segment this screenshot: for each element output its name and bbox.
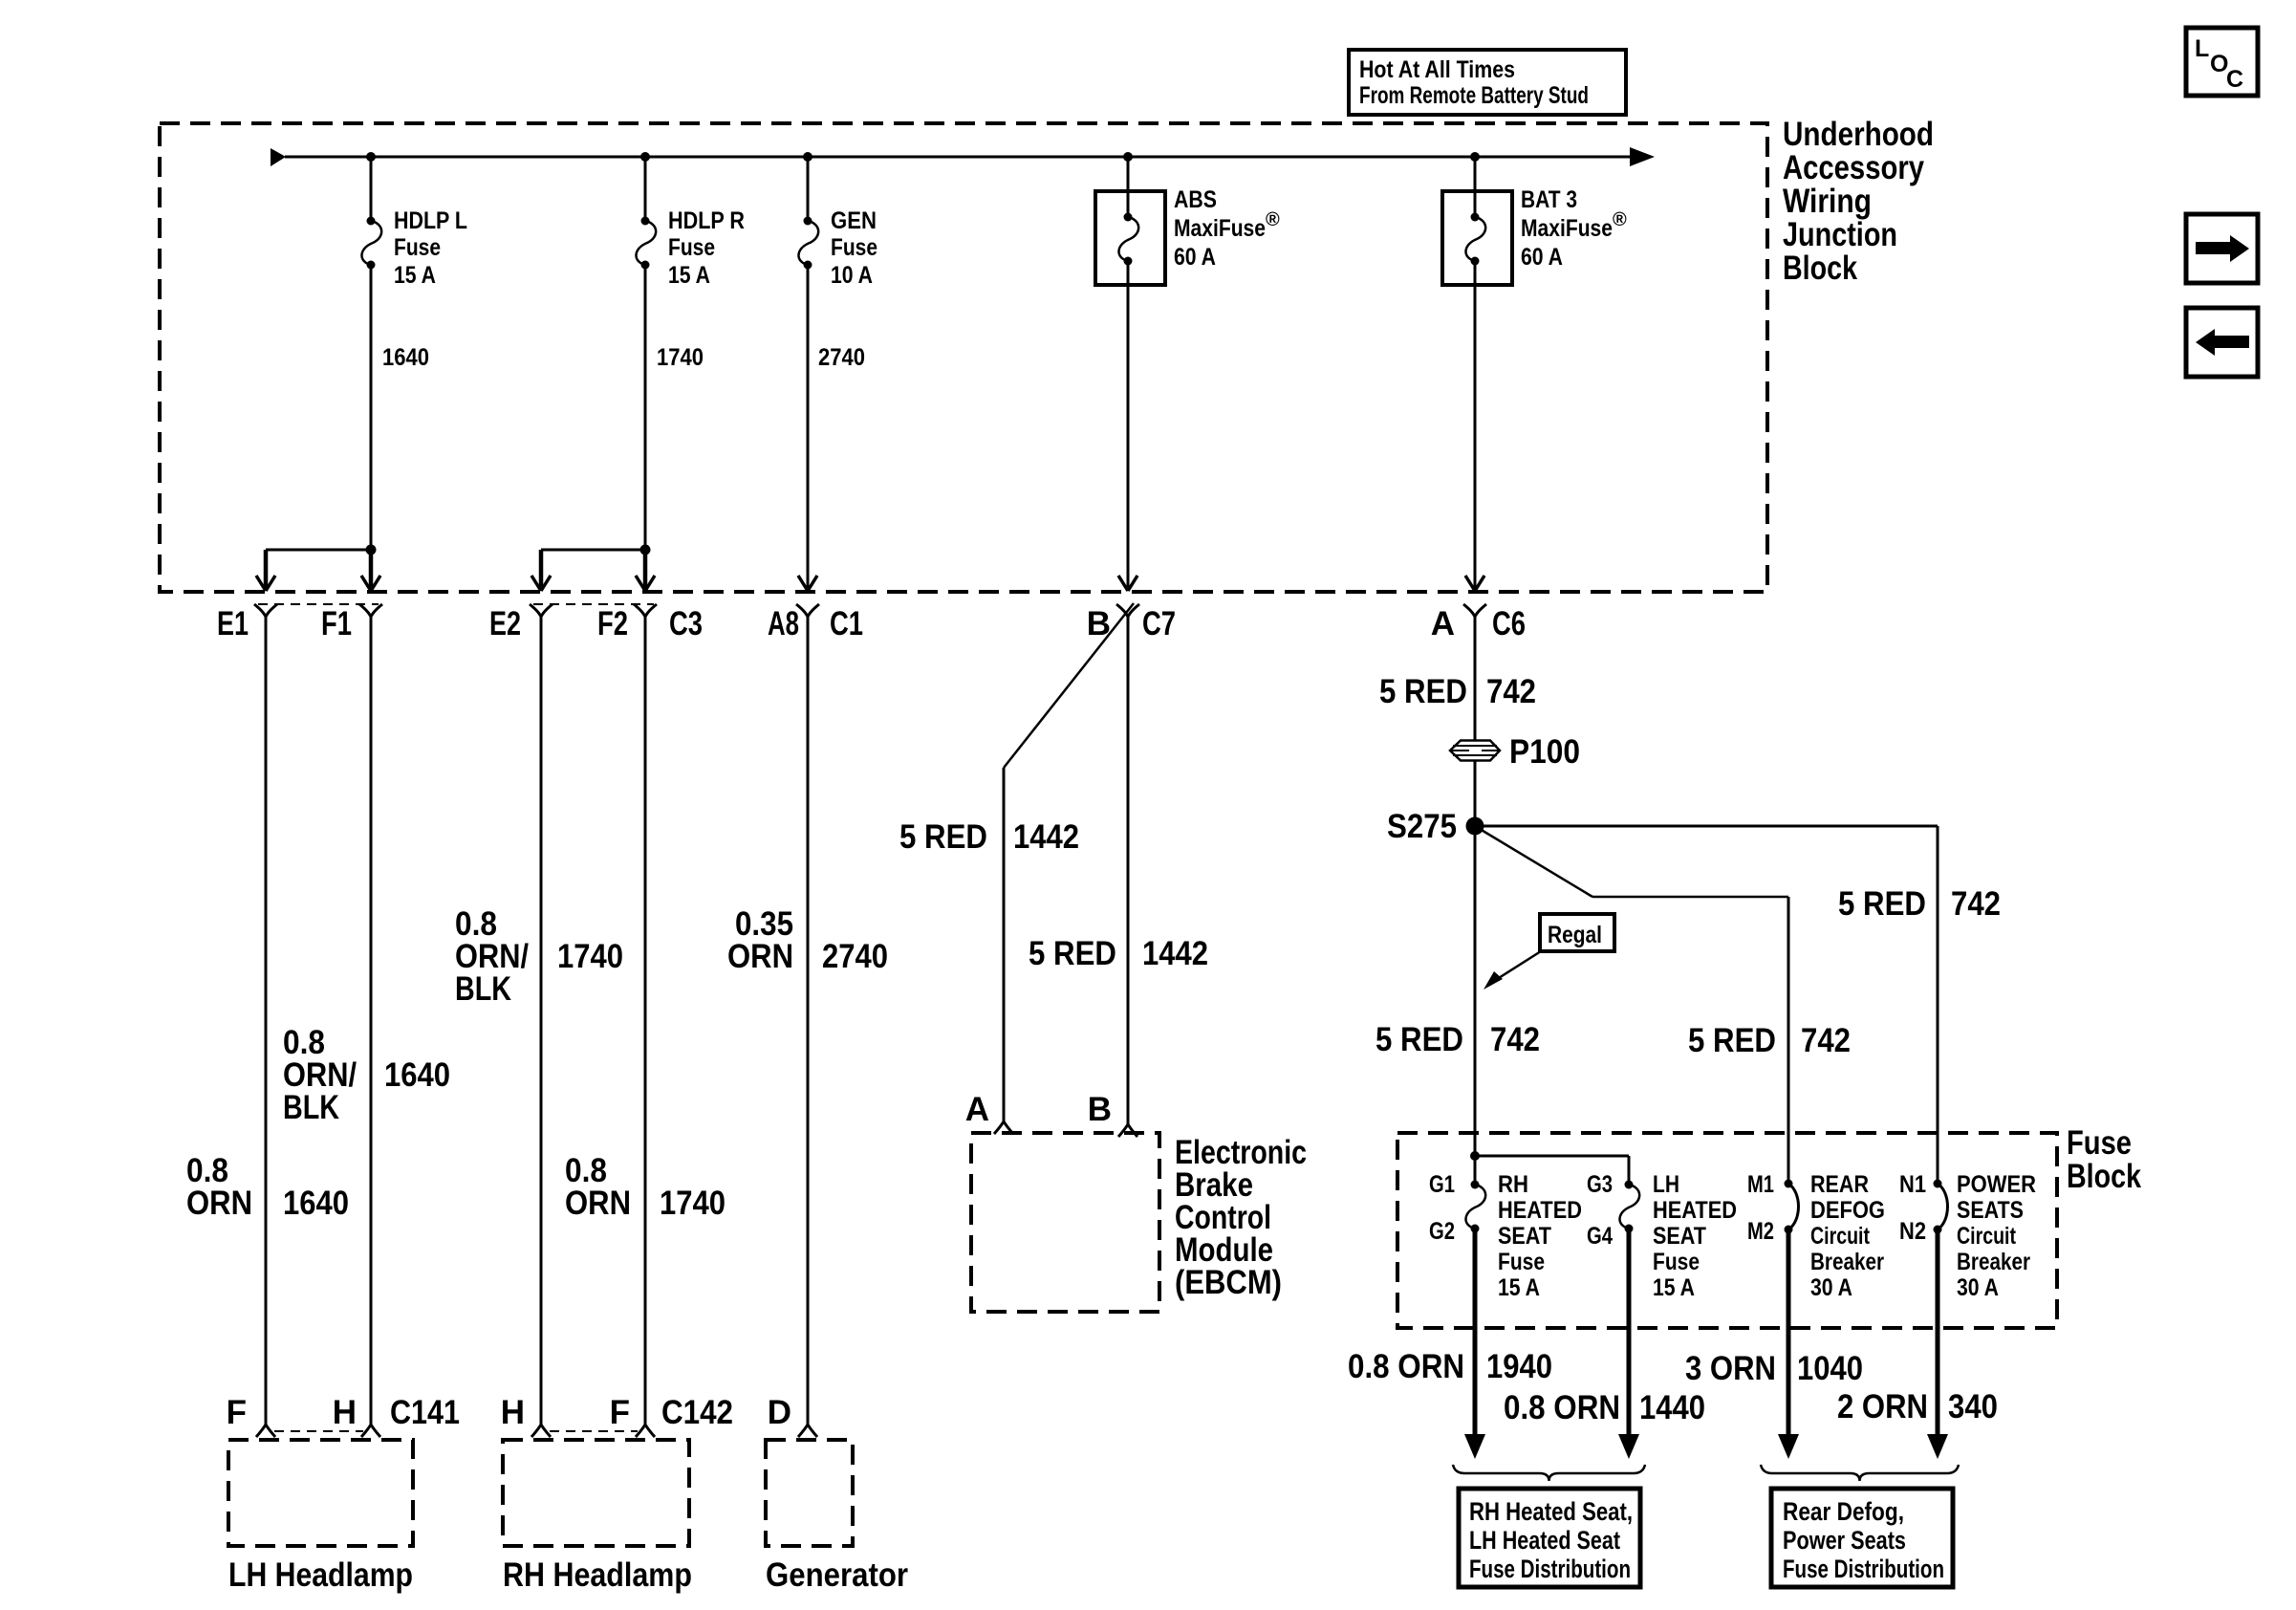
svg-text:1640: 1640 xyxy=(384,1056,450,1094)
svg-text:MaxiFuse®: MaxiFuse® xyxy=(1174,209,1280,242)
svg-text:60 A: 60 A xyxy=(1174,244,1216,271)
svg-text:30 A: 30 A xyxy=(1810,1274,1852,1301)
svg-text:P100: P100 xyxy=(1509,733,1580,771)
svg-text:POWER: POWER xyxy=(1957,1171,2036,1198)
svg-text:Block: Block xyxy=(2067,1158,2141,1195)
svg-text:B: B xyxy=(1088,1091,1112,1128)
svg-text:D: D xyxy=(768,1394,791,1431)
svg-text:From Remote Battery Stud: From Remote Battery Stud xyxy=(1359,82,1589,109)
svg-text:15 A: 15 A xyxy=(1653,1274,1695,1301)
svg-text:HEATED: HEATED xyxy=(1498,1197,1582,1224)
svg-text:2 ORN: 2 ORN xyxy=(1837,1388,1928,1425)
svg-text:G3: G3 xyxy=(1587,1171,1613,1198)
svg-text:0.8 ORN: 0.8 ORN xyxy=(1348,1348,1464,1385)
svg-text:Fuse Distribution: Fuse Distribution xyxy=(1469,1555,1631,1583)
svg-text:LH Headlamp: LH Headlamp xyxy=(228,1556,413,1594)
svg-text:HDLP R: HDLP R xyxy=(668,207,745,234)
svg-text:LH Heated Seat: LH Heated Seat xyxy=(1469,1526,1620,1555)
svg-text:0.8 ORN: 0.8 ORN xyxy=(1504,1389,1620,1426)
svg-text:F: F xyxy=(610,1394,630,1431)
svg-text:L: L xyxy=(2195,35,2209,62)
svg-text:M1: M1 xyxy=(1747,1171,1774,1198)
svg-text:C: C xyxy=(2226,66,2243,93)
svg-text:G2: G2 xyxy=(1429,1218,1455,1245)
svg-text:742: 742 xyxy=(1490,1021,1540,1058)
svg-text:HEATED: HEATED xyxy=(1653,1197,1737,1224)
svg-text:1740: 1740 xyxy=(557,938,623,975)
svg-text:742: 742 xyxy=(1801,1022,1851,1059)
svg-text:Fuse: Fuse xyxy=(1653,1249,1700,1275)
svg-text:ABS: ABS xyxy=(1174,186,1217,213)
svg-text:Fuse: Fuse xyxy=(1498,1249,1545,1275)
svg-text:Generator: Generator xyxy=(766,1556,908,1594)
svg-text:1740: 1740 xyxy=(660,1185,726,1222)
svg-text:A8: A8 xyxy=(768,605,799,642)
svg-text:LH: LH xyxy=(1653,1171,1679,1198)
svg-text:G4: G4 xyxy=(1587,1223,1613,1250)
svg-text:2740: 2740 xyxy=(818,344,865,371)
svg-text:1740: 1740 xyxy=(657,344,704,371)
svg-text:A: A xyxy=(965,1091,989,1128)
svg-text:15 A: 15 A xyxy=(668,262,710,289)
svg-text:Regal: Regal xyxy=(1548,922,1602,948)
svg-text:RH Heated Seat,: RH Heated Seat, xyxy=(1469,1497,1633,1526)
svg-text:A: A xyxy=(1431,605,1455,642)
svg-text:SEATS: SEATS xyxy=(1957,1197,2024,1224)
svg-text:3 ORN: 3 ORN xyxy=(1685,1350,1776,1387)
svg-text:C142: C142 xyxy=(661,1394,733,1431)
svg-text:1640: 1640 xyxy=(283,1185,349,1222)
svg-text:F2: F2 xyxy=(597,605,628,642)
svg-text:Fuse: Fuse xyxy=(668,234,715,261)
svg-text:Accessory: Accessory xyxy=(1783,149,1924,186)
svg-text:E2: E2 xyxy=(489,605,521,642)
svg-text:742: 742 xyxy=(1951,885,2001,923)
svg-text:Block: Block xyxy=(1783,250,1857,287)
svg-text:1440: 1440 xyxy=(1639,1389,1705,1426)
svg-text:M2: M2 xyxy=(1747,1218,1774,1245)
svg-text:Circuit: Circuit xyxy=(1810,1223,1871,1250)
svg-text:2740: 2740 xyxy=(822,938,888,975)
svg-text:Circuit: Circuit xyxy=(1957,1223,2017,1250)
svg-text:5 RED: 5 RED xyxy=(899,818,987,856)
svg-text:30 A: 30 A xyxy=(1957,1274,1999,1301)
svg-text:SEAT: SEAT xyxy=(1498,1223,1551,1250)
svg-text:DEFOG: DEFOG xyxy=(1810,1197,1885,1224)
svg-text:Rear Defog,: Rear Defog, xyxy=(1783,1497,1904,1526)
svg-text:Breaker: Breaker xyxy=(1957,1249,2030,1275)
svg-text:C141: C141 xyxy=(390,1394,460,1431)
svg-text:1442: 1442 xyxy=(1142,935,1208,972)
svg-text:SEAT: SEAT xyxy=(1653,1223,1706,1250)
svg-text:Fuse: Fuse xyxy=(2067,1124,2132,1162)
svg-text:E1: E1 xyxy=(217,605,249,642)
svg-text:ORN: ORN xyxy=(565,1185,631,1222)
svg-text:5 RED: 5 RED xyxy=(1375,1021,1463,1058)
svg-text:5 RED: 5 RED xyxy=(1029,935,1116,972)
svg-text:BLK: BLK xyxy=(283,1089,339,1126)
svg-text:H: H xyxy=(501,1394,525,1431)
svg-text:5 RED: 5 RED xyxy=(1379,673,1467,710)
svg-text:1040: 1040 xyxy=(1797,1350,1863,1387)
svg-text:Hot At All Times: Hot At All Times xyxy=(1359,56,1515,83)
svg-text:10 A: 10 A xyxy=(831,262,873,289)
svg-text:F1: F1 xyxy=(321,605,352,642)
svg-text:742: 742 xyxy=(1486,673,1536,710)
svg-text:Underhood: Underhood xyxy=(1783,116,1934,153)
svg-text:N1: N1 xyxy=(1899,1171,1926,1198)
svg-text:C7: C7 xyxy=(1142,605,1176,642)
svg-text:S275: S275 xyxy=(1387,808,1457,845)
svg-text:C1: C1 xyxy=(830,605,863,642)
svg-text:BLK: BLK xyxy=(455,970,511,1008)
svg-text:H: H xyxy=(333,1394,357,1431)
svg-text:5 RED: 5 RED xyxy=(1838,885,1926,923)
svg-text:Fuse: Fuse xyxy=(831,234,877,261)
svg-text:1442: 1442 xyxy=(1013,818,1079,856)
svg-text:15 A: 15 A xyxy=(394,262,436,289)
svg-text:REAR: REAR xyxy=(1810,1171,1869,1198)
svg-text:Wiring: Wiring xyxy=(1783,183,1872,220)
svg-text:ORN: ORN xyxy=(186,1185,252,1222)
svg-text:HDLP L: HDLP L xyxy=(394,207,467,234)
svg-text:N2: N2 xyxy=(1899,1218,1926,1245)
svg-text:15 A: 15 A xyxy=(1498,1274,1540,1301)
svg-text:Fuse: Fuse xyxy=(394,234,441,261)
svg-text:ORN: ORN xyxy=(727,938,793,975)
svg-text:60 A: 60 A xyxy=(1521,244,1563,271)
svg-text:Fuse Distribution: Fuse Distribution xyxy=(1783,1555,1944,1583)
svg-text:GEN: GEN xyxy=(831,207,877,234)
svg-text:Junction: Junction xyxy=(1783,216,1897,253)
svg-text:340: 340 xyxy=(1948,1388,1998,1425)
svg-text:Breaker: Breaker xyxy=(1810,1249,1884,1275)
svg-text:(EBCM): (EBCM) xyxy=(1175,1264,1282,1301)
svg-text:BAT 3: BAT 3 xyxy=(1521,186,1577,213)
svg-text:5 RED: 5 RED xyxy=(1688,1022,1776,1059)
svg-text:RH Headlamp: RH Headlamp xyxy=(503,1556,692,1594)
svg-text:C6: C6 xyxy=(1492,605,1526,642)
svg-text:RH: RH xyxy=(1498,1171,1528,1198)
svg-text:B: B xyxy=(1087,605,1111,642)
svg-text:1640: 1640 xyxy=(382,344,429,371)
svg-text:1940: 1940 xyxy=(1486,1348,1552,1385)
svg-text:MaxiFuse®: MaxiFuse® xyxy=(1521,209,1627,242)
svg-text:Power Seats: Power Seats xyxy=(1783,1526,1906,1555)
svg-text:C3: C3 xyxy=(669,605,703,642)
svg-text:G1: G1 xyxy=(1429,1171,1455,1198)
svg-text:F: F xyxy=(227,1394,247,1431)
